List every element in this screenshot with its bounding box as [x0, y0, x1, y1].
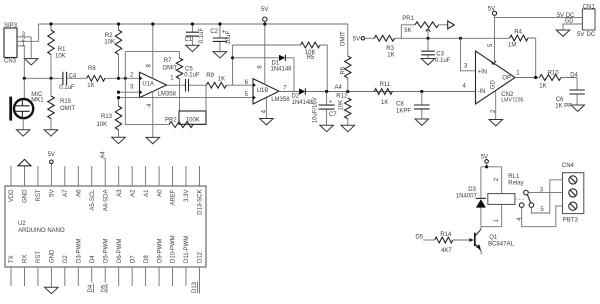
svg-text:0.1uF: 0.1uF	[199, 28, 205, 44]
wire CN3 pin3 to ground	[30, 37, 32, 59]
svg-text:D5: D5	[415, 234, 423, 240]
resistor R9	[206, 73, 226, 88]
wire relay top	[481, 166, 502, 168]
ground at U2 GND	[45, 287, 59, 293]
top pin labels U2	[9, 189, 203, 215]
node dot rail pin8	[151, 22, 154, 25]
pin 6 arrowhead U1B	[253, 83, 256, 87]
wire bias to U1B pin5	[119, 97, 254, 99]
node dot PR1 wiper / C3	[426, 37, 429, 40]
svg-text:10K: 10K	[55, 53, 66, 59]
svg-text:R9: R9	[206, 73, 214, 79]
ground at C6	[571, 105, 585, 111]
svg-text:A4: A4	[100, 151, 106, 159]
svg-text:5V: 5V	[50, 190, 56, 197]
ground at R15	[44, 130, 58, 136]
resistor R1	[48, 24, 66, 78]
svg-text:LM358: LM358	[158, 91, 177, 97]
node dot rail-R1	[49, 22, 52, 25]
svg-text:1N4007: 1N4007	[456, 193, 478, 199]
svg-text:PR2: PR2	[165, 118, 177, 124]
svg-text:CN3: CN3	[4, 59, 17, 65]
svg-text:VDD: VDD	[9, 189, 15, 202]
pin 5 arrowhead U1B	[253, 96, 256, 100]
node dot R6/R12 A4	[346, 90, 349, 93]
svg-text:SIP3: SIP3	[4, 23, 18, 29]
pin 1 of CN3	[17, 42, 26, 48]
svg-text:LMV7235: LMV7235	[501, 98, 523, 104]
svg-text:10K: 10K	[97, 122, 108, 128]
power arrow above GND pin	[18, 159, 31, 165]
wire +IN tap down	[461, 38, 476, 71]
diode D3	[456, 167, 486, 227]
resistor R6	[341, 24, 351, 92]
resistor R7	[163, 52, 183, 111]
svg-text:GND: GND	[50, 249, 56, 263]
wire CN3 pin2 to 5V rail	[38, 24, 40, 41]
resistor R8	[87, 66, 105, 89]
screw terminal 2 CN4	[569, 189, 577, 197]
wire U1A feedback top	[125, 52, 179, 125]
svg-text:R12: R12	[336, 94, 348, 100]
comparator CN2 LMV7235	[476, 43, 524, 113]
svg-text:3.3V: 3.3V	[184, 190, 190, 202]
svg-text:RST: RST	[36, 189, 42, 201]
svg-text:5V: 5V	[577, 32, 584, 38]
svg-text:R5: R5	[307, 55, 315, 61]
capacitor C3	[421, 38, 450, 64]
svg-text:PR1: PR1	[402, 16, 414, 22]
svg-text:D12: D12	[198, 251, 204, 263]
diode D2	[292, 88, 314, 106]
svg-text:A0: A0	[157, 189, 163, 197]
svg-text:A7: A7	[63, 189, 69, 197]
ground at C3	[421, 59, 435, 65]
svg-text:0.1uF: 0.1uF	[435, 58, 451, 64]
svg-text:LM358: LM358	[271, 97, 290, 103]
node dot 5V relay	[485, 165, 488, 168]
resistor R11	[374, 82, 392, 106]
5V terminal at R3	[353, 36, 374, 42]
svg-text:10K: 10K	[338, 100, 344, 111]
svg-text:R3: R3	[386, 46, 394, 52]
ground at R12	[341, 125, 355, 131]
net label D13 under U2	[192, 281, 198, 293]
svg-text:RL1: RL1	[508, 174, 520, 180]
svg-text:R15: R15	[60, 99, 72, 105]
svg-text:D1: D1	[272, 60, 280, 66]
svg-text:BC847AL: BC847AL	[488, 241, 514, 247]
svg-text:5V: 5V	[261, 7, 268, 13]
op-amp U1A	[140, 72, 177, 97]
connector CN1	[582, 5, 595, 31]
wire relay bottom	[481, 226, 502, 228]
connector CN4	[562, 163, 584, 224]
svg-text:R11: R11	[380, 82, 391, 88]
ground at U1A pin4	[146, 137, 160, 143]
svg-text:D5-PWM: D5-PWM	[103, 239, 109, 263]
svg-text:C6: C6	[556, 97, 564, 103]
pin 4 wire U1A to ground	[152, 92, 154, 138]
svg-text:D13-SCK: D13-SCK	[198, 190, 204, 215]
net label D4 under U2	[88, 284, 94, 293]
svg-text:1KPF: 1KPF	[396, 108, 411, 114]
svg-text:D2: D2	[292, 94, 300, 100]
svg-text:U1A: U1A	[142, 82, 154, 88]
wire contact 5 to CN4	[531, 180, 562, 213]
svg-text:RX: RX	[23, 255, 29, 263]
svg-text:R1: R1	[58, 47, 66, 53]
svg-text:Q1: Q1	[489, 235, 498, 241]
capacitor C1	[185, 24, 206, 45]
svg-text:1N4148: 1N4148	[292, 100, 314, 106]
resistor R13	[97, 98, 122, 138]
svg-text:GND: GND	[23, 189, 29, 203]
svg-text:10uF/16V: 10uF/16V	[312, 97, 318, 123]
5V terminal relay	[481, 154, 489, 166]
svg-text:OMIT: OMIT	[341, 31, 347, 46]
node dot mic	[23, 77, 26, 80]
net label D5 under U2	[102, 284, 108, 293]
svg-text:5V: 5V	[48, 152, 55, 158]
5V supply terminal U1B pin8	[261, 7, 268, 84]
resistor R15	[48, 78, 76, 129]
screw terminal 1 CN4	[569, 176, 577, 184]
pin 3 arrowhead U1A	[139, 90, 142, 94]
wire R3 to R4 row	[395, 37, 510, 39]
wire CN3 pin1 down to mic node	[23, 46, 25, 78]
svg-text:GD: GD	[491, 80, 497, 90]
IC U2 Arduino Nano body	[5, 186, 206, 267]
wire CN2 output row	[515, 77, 577, 79]
node dot R2 column pin2 row	[117, 77, 120, 80]
svg-text:0.1uF: 0.1uF	[184, 72, 200, 78]
wire 5V to CN1	[495, 17, 583, 19]
microphone MK1	[11, 78, 45, 129]
svg-text:A4: A4	[335, 85, 343, 91]
wire U1A output row	[167, 84, 253, 86]
svg-text:U1B: U1B	[257, 88, 269, 94]
node dot R4 output	[534, 76, 537, 79]
resistor R2	[104, 24, 121, 78]
5V supply terminal CN2	[488, 6, 497, 63]
svg-text:OP: OP	[502, 75, 511, 81]
svg-text:A6: A6	[77, 189, 83, 197]
svg-text:A5-SCL: A5-SCL	[90, 189, 96, 211]
node dot +IN tap	[459, 37, 462, 40]
diode D1	[233, 55, 294, 92]
svg-text:+: +	[329, 99, 333, 105]
svg-text:+IN: +IN	[478, 70, 488, 76]
wire U1A pin3 row	[119, 91, 140, 93]
svg-text:D2: D2	[63, 255, 69, 263]
arrow at PR1 right	[448, 21, 455, 29]
svg-text:R8: R8	[88, 66, 96, 72]
svg-text:OMIT: OMIT	[60, 106, 75, 112]
node dot rail-R2	[117, 22, 120, 25]
svg-text:4K7: 4K7	[441, 248, 452, 254]
svg-text:D7: D7	[130, 255, 136, 263]
svg-text:1K: 1K	[87, 83, 94, 89]
potentiometer PR2	[125, 85, 206, 127]
node dot R5/C7 on output	[325, 90, 328, 93]
ground at C1	[186, 45, 200, 51]
resistor R10	[539, 71, 561, 90]
wire R14 to base	[453, 239, 470, 241]
ground at C2	[213, 52, 227, 58]
svg-text:1K: 1K	[218, 77, 225, 83]
svg-text:R10: R10	[548, 71, 560, 77]
base arrowhead Q1	[469, 238, 473, 242]
node dot R1/R15/C4	[49, 77, 52, 80]
wire mic signal row	[24, 77, 139, 79]
svg-text:C1: C1	[185, 37, 193, 43]
resistor R14	[435, 232, 453, 254]
svg-text:-IN: -IN	[478, 89, 486, 95]
svg-text:OMIT: OMIT	[163, 65, 178, 71]
resistor R12	[336, 94, 351, 126]
wire D5 to R14	[423, 239, 434, 241]
capacitor C4	[59, 72, 77, 91]
svg-text:A2: A2	[130, 189, 136, 197]
ground at R13	[112, 137, 126, 143]
relay RL1 coil	[488, 167, 524, 227]
svg-text:5V: 5V	[353, 36, 360, 42]
relay contact NO	[529, 203, 534, 208]
svg-text:5K: 5K	[404, 28, 411, 34]
svg-text:A3: A3	[117, 189, 123, 197]
pin 2 wire CN2 to ground	[495, 91, 497, 120]
op-amp U1B	[253, 79, 290, 104]
node dot pin3 bias	[117, 91, 120, 94]
svg-text:D3: D3	[468, 187, 476, 193]
svg-text:U2: U2	[18, 221, 26, 227]
relay contact NC	[519, 203, 524, 208]
svg-text:D9-PWM: D9-PWM	[157, 239, 163, 263]
svg-text:R6: R6	[341, 66, 347, 74]
potentiometer PR1	[401, 16, 447, 38]
svg-text:1N4148: 1N4148	[271, 66, 293, 72]
capacitor C2	[210, 24, 232, 52]
capacitor C5	[184, 67, 200, 92]
node dot rail 5V tap	[263, 22, 266, 25]
resistor R5	[233, 42, 328, 91]
bottom pin labels U2	[9, 235, 203, 263]
connector CN3 SIP3	[4, 23, 18, 65]
svg-text:D4: D4	[90, 255, 96, 263]
svg-text:C7: C7	[329, 112, 337, 118]
ground at mic	[16, 130, 30, 136]
node dot feedback tap pin2	[124, 77, 127, 80]
ground at C7	[320, 125, 334, 131]
svg-text:D6-PWM: D6-PWM	[117, 239, 123, 263]
svg-text:CN4: CN4	[562, 163, 575, 169]
capacitor C7	[312, 92, 337, 126]
ground at C8	[415, 119, 429, 125]
5V terminal above 5V pin	[48, 152, 55, 164]
svg-text:100K: 100K	[186, 117, 200, 123]
pin 8 wire U1A to rail	[152, 24, 154, 79]
wire CN1 GD to ground	[563, 24, 582, 30]
transistor Q1	[475, 227, 515, 255]
ground at CN2	[489, 120, 503, 126]
pin 3 of CN3	[17, 32, 31, 38]
relay contact common	[524, 190, 529, 195]
pin 4 wire U1B to ground	[265, 98, 267, 119]
capacitor C8	[396, 92, 430, 120]
svg-text:1K: 1K	[387, 53, 394, 59]
svg-text:RST: RST	[36, 251, 42, 263]
svg-text:TX: TX	[9, 255, 15, 263]
wire contact 4 to CN4	[522, 206, 563, 227]
wire U1B pin6 feedback column	[232, 45, 234, 85]
svg-text:+: +	[222, 30, 226, 36]
node dot rail-C2	[218, 22, 221, 25]
resistor R3	[374, 35, 394, 58]
ground at CN1	[556, 30, 570, 36]
svg-text:PBT3: PBT3	[563, 218, 579, 224]
svg-text:R4: R4	[514, 30, 522, 36]
svg-text:DC: DC	[587, 32, 596, 38]
svg-text:Relay: Relay	[508, 181, 523, 187]
svg-text:R7: R7	[164, 58, 172, 64]
top pin stubs U2	[11, 158, 199, 186]
svg-text:R14: R14	[440, 232, 452, 238]
node dot pin5 bias	[117, 96, 120, 99]
svg-text:A1: A1	[144, 189, 150, 197]
resistor R4	[508, 30, 536, 78]
wire 5V rail top	[39, 23, 348, 25]
svg-text:D3-PWM: D3-PWM	[77, 239, 83, 263]
svg-text:10K: 10K	[104, 39, 115, 45]
svg-text:C4: C4	[69, 73, 77, 79]
svg-text:A4-SDA: A4-SDA	[103, 190, 109, 212]
node dot C8	[420, 90, 423, 93]
relay actuator dashed link	[515, 198, 525, 200]
svg-text:0.1uF: 0.1uF	[59, 85, 75, 91]
svg-text:ARDUINO NANO: ARDUINO NANO	[18, 228, 65, 234]
capacitor C6	[555, 78, 585, 110]
svg-text:10uF: 10uF	[226, 30, 232, 44]
svg-text:1M: 1M	[508, 42, 516, 48]
svg-text:MK1: MK1	[31, 98, 44, 104]
svg-text:R13: R13	[101, 114, 113, 120]
svg-text:AREF: AREF	[171, 189, 177, 205]
ground at CN3	[24, 59, 38, 65]
svg-text:D11-PWM: D11-PWM	[184, 236, 190, 263]
svg-text:CN1: CN1	[583, 5, 596, 11]
svg-text:D10-PWM: D10-PWM	[171, 235, 177, 263]
screw terminal 3 CN4	[569, 202, 577, 210]
svg-text:C3: C3	[436, 51, 444, 57]
ground at U1B pin4	[260, 119, 274, 125]
svg-text:D8: D8	[144, 255, 150, 263]
pin 2 of CN3	[17, 37, 39, 43]
node dot D1 tap	[231, 56, 234, 59]
svg-text:C2: C2	[210, 29, 218, 35]
wire U1B output row	[279, 91, 476, 93]
svg-text:C8: C8	[396, 101, 404, 107]
svg-text:R2: R2	[105, 33, 113, 39]
svg-text:1K: 1K	[539, 84, 546, 90]
relay contact blade	[527, 195, 530, 203]
node dot rail-C1	[191, 22, 194, 25]
bottom pin stubs U2	[11, 267, 199, 294]
wire contact 3 to CN4	[528, 191, 562, 193]
pin 2 arrowhead U1A	[139, 76, 142, 80]
svg-text:1K: 1K	[381, 100, 388, 106]
